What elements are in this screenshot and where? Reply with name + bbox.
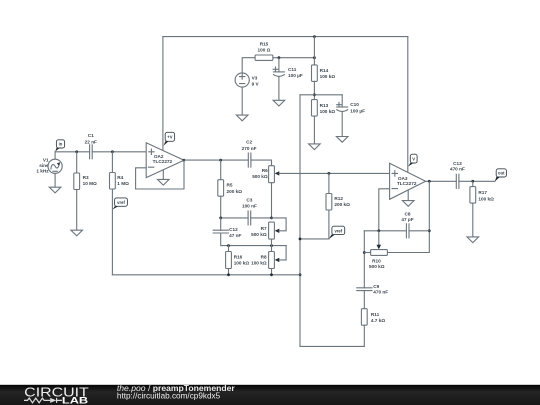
flag vref at R12 xyxy=(329,226,345,239)
wire V3 to R15 xyxy=(242,58,255,73)
svg-text:100 kΩ: 100 kΩ xyxy=(478,196,494,201)
svg-text:R8: R8 xyxy=(261,254,267,259)
capacitor C8 xyxy=(401,211,413,237)
wire R11 bottom xyxy=(363,325,365,346)
node R16 bottom tap xyxy=(227,273,230,276)
capacitor C13 xyxy=(450,161,465,188)
svg-text:R15: R15 xyxy=(260,41,269,46)
svg-text:R13: R13 xyxy=(320,103,329,108)
svg-text:500 kΩ: 500 kΩ xyxy=(251,232,267,237)
svg-text:470 nF: 470 nF xyxy=(450,167,465,172)
svg-text:C1: C1 xyxy=(88,133,94,138)
voltage source V1 xyxy=(36,152,62,174)
node OA3 output xyxy=(428,180,431,183)
flag V at OA3 xyxy=(408,154,417,166)
potentiometer R7 xyxy=(251,222,279,239)
wire R7 wiper loop xyxy=(272,218,287,231)
svg-text:200 kΩ: 200 kΩ xyxy=(334,202,350,207)
wire R3 top xyxy=(76,152,78,173)
wire R17 bottom xyxy=(472,203,474,237)
node R10 wiper tap xyxy=(377,229,380,232)
svg-text:TLC2272: TLC2272 xyxy=(397,181,417,186)
wire V1 bottom xyxy=(54,173,56,187)
wire R6 wiper to OA3 plus input xyxy=(279,172,389,174)
node C8 right tap xyxy=(428,229,431,232)
svg-text:R4: R4 xyxy=(117,175,123,180)
svg-text:9 V: 9 V xyxy=(252,82,260,87)
wire R12 top xyxy=(328,173,330,193)
wire C8 run xyxy=(364,230,429,232)
wire +V top rail xyxy=(163,36,408,38)
wire R3 bottom xyxy=(76,190,78,231)
wire R6 bottom xyxy=(271,183,273,218)
svg-text:R7: R7 xyxy=(261,226,267,231)
wire R8 bottom xyxy=(271,269,273,275)
flag vref at R4 xyxy=(113,198,128,210)
node rail junction xyxy=(313,35,316,38)
svg-text:+V: +V xyxy=(167,135,172,140)
svg-text:500 kΩ: 500 kΩ xyxy=(369,264,385,269)
wire C12 bottom and mid bus xyxy=(221,233,286,246)
op-amp OA3 xyxy=(390,163,426,199)
wire R16 top stub xyxy=(228,246,230,252)
wire C9 bottom xyxy=(363,291,365,309)
node C3 right junction xyxy=(270,217,273,220)
svg-text:1 MΩ: 1 MΩ xyxy=(117,181,129,186)
node vref-R12 junction xyxy=(299,238,302,241)
potentiometer R8 xyxy=(251,252,279,269)
node C11 tap xyxy=(278,56,281,59)
node R10 left junction xyxy=(363,251,366,254)
svg-text:R11: R11 xyxy=(371,312,380,317)
wire C8 left drop to R10 left and C9 xyxy=(363,231,365,288)
wire C10 bottom stub xyxy=(341,111,343,136)
wire R5 bottom xyxy=(220,196,222,218)
wire OA3 output drop to R10 xyxy=(387,181,429,252)
svg-text:1 kHz: 1 kHz xyxy=(36,169,49,174)
svg-text:100 kΩ: 100 kΩ xyxy=(251,261,267,266)
op-amp OA2 xyxy=(146,143,184,178)
svg-text:C10: C10 xyxy=(350,102,359,107)
flag in xyxy=(55,140,65,152)
capacitor C10 xyxy=(337,102,365,113)
capacitor C9 xyxy=(357,284,388,295)
svg-text:10 MΩ: 10 MΩ xyxy=(83,181,97,186)
wire C3 run xyxy=(221,217,272,219)
svg-text:out: out xyxy=(498,171,505,176)
ground under V1 xyxy=(49,187,61,193)
capacitor C11 xyxy=(273,67,303,78)
wire R17 top xyxy=(472,181,474,186)
wire OA3 minus feedback xyxy=(379,189,390,231)
svg-text:R12: R12 xyxy=(334,196,343,201)
node C3 left junction xyxy=(219,217,222,220)
node R12 tap xyxy=(328,172,331,175)
svg-text:500 kΩ: 500 kΩ xyxy=(252,174,268,179)
wire R14 to R13 xyxy=(313,81,315,99)
svg-text:100 µF: 100 µF xyxy=(288,73,303,78)
node supply divider junction xyxy=(313,93,316,96)
node R4 tap xyxy=(111,150,114,153)
svg-text:V3: V3 xyxy=(252,76,258,81)
svg-text:vref: vref xyxy=(334,228,342,233)
svg-text:100 Ω: 100 Ω xyxy=(258,48,271,53)
wire C11 top stub xyxy=(278,58,280,72)
wire vref bus bottom run xyxy=(112,274,300,276)
node OA2 output xyxy=(183,159,186,162)
svg-text:C12: C12 xyxy=(229,227,238,232)
svg-text:C9: C9 xyxy=(373,284,379,289)
resistor R17 xyxy=(470,187,494,204)
wire R8 wiper loop xyxy=(279,246,286,260)
wire R5 top xyxy=(220,160,222,180)
wire V3 bottom xyxy=(241,87,243,115)
resistor R3 xyxy=(74,173,97,190)
svg-text:C11: C11 xyxy=(288,67,297,72)
voltage source V3 xyxy=(235,73,259,87)
ground under R17 xyxy=(467,237,479,243)
resistor R11 xyxy=(361,309,385,326)
svg-text:R17: R17 xyxy=(478,190,487,195)
wire OA3 output run xyxy=(426,180,457,182)
flag out xyxy=(495,169,507,182)
ground under R13 xyxy=(309,144,321,150)
svg-text:R10: R10 xyxy=(372,258,381,263)
wire vref bottom run to R11 xyxy=(300,345,364,347)
node R8 bottom tap xyxy=(270,273,273,276)
wire rail to R14 xyxy=(313,37,315,65)
wire OA2 output run xyxy=(184,160,272,166)
wire C13 to out xyxy=(459,180,495,182)
svg-text:in: in xyxy=(59,141,63,146)
svg-text:100 kΩ: 100 kΩ xyxy=(234,261,250,266)
wire C11 bottom stub xyxy=(278,76,280,100)
svg-text:R16: R16 xyxy=(234,254,243,259)
svg-text:V: V xyxy=(412,156,415,161)
svg-text:V1: V1 xyxy=(43,157,49,162)
svg-text:C2: C2 xyxy=(246,140,252,145)
wire R15 to R14 line xyxy=(273,57,315,59)
resistor R13 xyxy=(312,100,336,117)
svg-text:R14: R14 xyxy=(320,68,329,73)
FOOTER xyxy=(0,383,540,405)
ground under C10 xyxy=(336,137,348,143)
svg-text:270 nF: 270 nF xyxy=(242,146,257,151)
flag +V at OA2 xyxy=(163,132,174,145)
svg-text:sine: sine xyxy=(39,163,49,168)
node R3 tap xyxy=(75,150,78,153)
svg-text:vref: vref xyxy=(117,200,125,205)
wire R4 top xyxy=(111,152,113,173)
resistor R12 xyxy=(326,194,350,211)
svg-text:22 nF: 22 nF xyxy=(85,139,97,144)
wire R13 bottom xyxy=(313,116,315,144)
wire R12 bottom to vref drop xyxy=(300,210,329,239)
node vref bus junction xyxy=(299,273,302,276)
potentiometer R10 xyxy=(369,250,387,270)
svg-text:C13: C13 xyxy=(453,161,462,166)
capacitor C3 xyxy=(242,197,257,225)
node R5 tap xyxy=(219,159,222,162)
capacitor C2 xyxy=(242,140,257,168)
svg-text:200 kΩ: 200 kΩ xyxy=(227,189,243,194)
svg-text:C8: C8 xyxy=(405,211,411,216)
svg-text:100 nF: 100 nF xyxy=(242,204,257,209)
node R15-R14 junction xyxy=(313,56,316,59)
svg-text:R5: R5 xyxy=(227,183,233,188)
ground under R3 xyxy=(71,230,83,236)
svg-text:C3: C3 xyxy=(246,197,252,202)
resistor R16 xyxy=(226,252,250,269)
potentiometer R6 xyxy=(252,166,279,183)
svg-text:http://circuitlab.com/cp9kdx5: http://circuitlab.com/cp9kdx5 xyxy=(117,392,221,401)
resistor R4 xyxy=(110,173,130,190)
node R16 top tap xyxy=(227,244,230,247)
node R17 tap xyxy=(471,180,474,183)
svg-text:R6: R6 xyxy=(262,168,268,173)
resistor R15 xyxy=(255,41,273,60)
svg-text:LAB: LAB xyxy=(62,395,88,405)
svg-text:TLC2272: TLC2272 xyxy=(153,159,173,164)
capacitor C1 xyxy=(85,133,97,159)
ground under OA2 xyxy=(158,170,170,185)
svg-text:4.7 kΩ: 4.7 kΩ xyxy=(371,318,385,323)
wire R10 wiper drop with arrow xyxy=(378,231,380,245)
wire R4 bottom to vref bus xyxy=(111,189,113,275)
ground under C11 xyxy=(273,100,285,106)
svg-text:100 µF: 100 µF xyxy=(350,108,365,113)
wire divider to vref drop and C10 xyxy=(300,94,342,96)
svg-text:47 nF: 47 nF xyxy=(229,233,241,238)
wire C10 top stub xyxy=(341,95,343,107)
capacitor C12 xyxy=(213,227,241,238)
wire R7 bottom to R8 top xyxy=(271,239,273,251)
ground under V3 xyxy=(236,115,248,121)
ground under OA3 xyxy=(402,190,414,206)
resistor R14 xyxy=(312,65,336,82)
node R7-R8 mid junction xyxy=(270,244,273,247)
wire left drop to OA2 V+ pin xyxy=(162,37,164,151)
svg-text:R3: R3 xyxy=(83,175,89,180)
wire R10 left stub xyxy=(364,252,370,254)
svg-text:470 nF: 470 nF xyxy=(373,290,388,295)
wire C12 top stub xyxy=(220,218,222,230)
wire vref vertical drop xyxy=(299,95,301,347)
svg-text:100 kΩ: 100 kΩ xyxy=(320,109,336,114)
wire OA2 feedback loop xyxy=(136,160,184,189)
wire input node xyxy=(55,151,146,153)
resistor R5 xyxy=(218,180,242,197)
wire right drop to OA3 V+ pin xyxy=(407,37,409,173)
wire R16 bottom xyxy=(228,269,230,275)
svg-text:47 pF: 47 pF xyxy=(401,217,413,222)
svg-text:100 kΩ: 100 kΩ xyxy=(320,74,336,79)
